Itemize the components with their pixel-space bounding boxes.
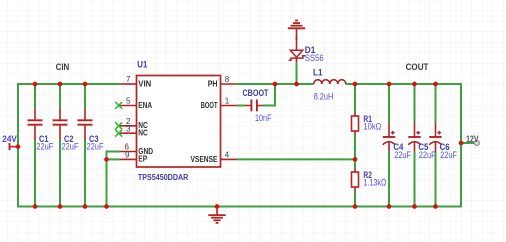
junction C1 top	[33, 82, 38, 87]
value 8.2uH	[314, 92, 334, 102]
diode D1 SS56	[289, 40, 306, 63]
junction CBOOT riser	[273, 82, 278, 87]
pin 5 ENA stub	[119, 105, 137, 107]
port label 24V	[2, 134, 16, 144]
svg-text:24V: 24V	[2, 134, 16, 144]
pin number 6	[125, 143, 130, 152]
wire C3 branch	[84, 84, 86, 207]
wire R1 top	[354, 84, 356, 113]
pin 9 EP stub	[120, 158, 137, 160]
wire GND pin to bottom rail	[107, 152, 121, 207]
junction C4 top	[387, 82, 392, 87]
resistor R1	[352, 113, 359, 135]
value C1 22uF	[36, 141, 53, 151]
wire C4 branch	[388, 84, 390, 207]
wire CBOOT to PH node	[263, 84, 276, 106]
svg-text:22uF: 22uF	[394, 150, 411, 160]
junction C5 bottom	[412, 204, 417, 209]
wire VSENSE to feedback node	[237, 158, 355, 160]
ground symbol bottom center	[208, 207, 225, 223]
value C3 22uF	[87, 141, 104, 151]
pin number 1	[225, 97, 230, 106]
svg-text:VIN: VIN	[138, 78, 151, 88]
svg-text:1.13kΩ: 1.13kΩ	[363, 178, 386, 188]
svg-text:22uF: 22uF	[36, 141, 53, 151]
capacitor C2	[53, 108, 68, 140]
12V output terminal circle	[474, 141, 479, 146]
designator R1	[363, 114, 372, 124]
designator D1	[305, 45, 316, 55]
node label CIN	[56, 62, 70, 72]
svg-text:4: 4	[225, 151, 230, 160]
value SS56	[305, 53, 324, 63]
pin 6 GND stub	[120, 151, 137, 153]
junction C3 bottom	[83, 204, 88, 209]
value C2 22uF	[62, 141, 79, 151]
ground symbol above D1 (flipped earth)	[288, 21, 305, 41]
capacitor C4 (polarized)	[383, 123, 396, 153]
svg-text:TPS5450DDAR: TPS5450DDAR	[138, 172, 189, 182]
pin name BOOT	[201, 100, 218, 110]
wire C5 branch	[414, 84, 416, 207]
junction 12V output	[459, 141, 464, 146]
junction C4 bottom	[387, 204, 392, 209]
svg-text:NC: NC	[138, 128, 148, 138]
designator CBOOT	[243, 88, 269, 98]
pin 2 NC stub	[119, 125, 137, 127]
pin name PH	[208, 78, 218, 88]
svg-text:8.2uH: 8.2uH	[314, 92, 334, 102]
wire BOOT pin to CBOOT	[237, 105, 246, 107]
svg-text:5: 5	[126, 97, 131, 106]
node label COUT	[406, 62, 429, 72]
capacitor CBOOT	[246, 100, 263, 112]
designator C3	[89, 134, 99, 144]
pin number 8	[225, 75, 230, 84]
wire R1 to R2 feedback node	[354, 135, 356, 169]
capacitor C3	[78, 108, 93, 140]
designator C6	[440, 142, 450, 152]
pin 3 NC stub	[119, 132, 137, 134]
junction C3 top	[83, 82, 88, 87]
wire C6 branch	[435, 84, 437, 207]
IC U1 TPS5450DDAR body	[137, 76, 221, 168]
pin number 5	[126, 97, 131, 106]
wire PH node	[237, 83, 314, 85]
value C6 22uF	[440, 150, 457, 160]
svg-text:9: 9	[125, 151, 130, 160]
no-connect X on pin 3	[115, 130, 122, 137]
wire bottom ground rail	[17, 206, 462, 208]
junction C1 bottom	[33, 204, 38, 209]
wire 12V output stub	[461, 142, 475, 144]
wire R2 to bottom rail	[354, 191, 356, 207]
pin number 4	[225, 151, 230, 160]
svg-text:22uF: 22uF	[62, 141, 79, 151]
junction R2 bottom	[353, 204, 358, 209]
svg-text:COUT: COUT	[406, 62, 429, 72]
junction C2 top	[58, 82, 63, 87]
24V input port	[10, 143, 18, 150]
value 10nF	[255, 113, 272, 123]
wire D1 cathode to PH node	[296, 63, 298, 85]
svg-text:L1: L1	[313, 67, 323, 77]
svg-text:ENA: ENA	[138, 100, 152, 110]
pin 8 PH stub	[221, 83, 238, 85]
value R1 10kΩ	[363, 122, 381, 132]
svg-text:22uF: 22uF	[419, 150, 436, 160]
svg-text:CIN: CIN	[56, 62, 70, 72]
capacitor C5 (polarized)	[408, 123, 421, 153]
svg-text:10kΩ: 10kΩ	[363, 122, 381, 132]
net label 12V	[466, 134, 478, 144]
junction GND branch bottom	[104, 204, 109, 209]
svg-text:3: 3	[126, 124, 131, 133]
wire C1 branch	[34, 84, 36, 207]
svg-text:1: 1	[225, 97, 230, 106]
junction EP node	[104, 157, 109, 162]
designator L1	[313, 67, 323, 77]
svg-text:12V: 12V	[466, 134, 478, 144]
svg-text:EP: EP	[138, 154, 147, 164]
capacitor C1	[28, 108, 43, 140]
svg-text:U1: U1	[137, 60, 147, 70]
junction R1 top	[353, 82, 358, 87]
pin name ENA	[138, 100, 152, 110]
pin number 3	[126, 124, 131, 133]
wire C2 branch	[59, 84, 61, 207]
designator C5	[418, 142, 428, 152]
designator C4	[393, 142, 403, 152]
pin number 7	[126, 75, 131, 84]
designator U1	[137, 60, 147, 70]
svg-text:CBOOT: CBOOT	[243, 88, 269, 98]
svg-text:PH: PH	[208, 78, 218, 88]
junction C2 bottom	[58, 204, 63, 209]
wire top input rail	[17, 83, 120, 85]
capacitor C6 (polarized)	[429, 123, 442, 153]
junction C5 top	[412, 82, 417, 87]
junction 24V input	[16, 144, 21, 149]
svg-text:7: 7	[126, 75, 131, 84]
svg-text:VSENSE: VSENSE	[191, 154, 218, 164]
no-connect X on pin 2	[115, 122, 122, 129]
wire right output rail	[460, 83, 462, 206]
resistor R2	[352, 169, 359, 191]
pin name NC (pin 2)	[138, 120, 148, 130]
pin 1 BOOT stub	[221, 105, 238, 107]
value TPS5450DDAR	[138, 172, 189, 182]
value C5 22uF	[419, 150, 436, 160]
pin name EP	[138, 154, 147, 164]
junction feedback node	[353, 157, 358, 162]
pin name NC (pin 3)	[138, 128, 148, 138]
wire EP pin	[107, 158, 121, 160]
svg-text:SS56: SS56	[305, 53, 324, 63]
value C4 22uF	[394, 150, 411, 160]
wire VOUT node	[346, 83, 461, 85]
pin number 9	[125, 151, 130, 160]
pin 4 VSENSE stub	[221, 158, 238, 160]
pin 7 VIN stub	[121, 83, 137, 85]
pin name VSENSE	[191, 154, 218, 164]
designator R2	[363, 170, 372, 180]
svg-text:BOOT: BOOT	[201, 100, 218, 110]
junction ground symbol	[215, 204, 220, 209]
junction C6 bottom	[433, 204, 438, 209]
wire D1 anode to ground	[296, 36, 298, 40]
junction D1 cathode	[294, 82, 299, 87]
svg-text:10nF: 10nF	[255, 113, 272, 123]
pin name GND	[138, 146, 153, 156]
value R2 1.13kΩ	[363, 178, 386, 188]
inductor L1	[314, 80, 346, 84]
no-connect X on pin 5	[115, 102, 122, 109]
designator C2	[64, 134, 74, 144]
junction C6 top	[433, 82, 438, 87]
svg-text:22uF: 22uF	[440, 150, 457, 160]
svg-text:22uF: 22uF	[87, 141, 104, 151]
svg-text:8: 8	[225, 75, 230, 84]
pin number 2	[126, 117, 131, 126]
pin name VIN	[138, 78, 151, 88]
wire left rail	[17, 83, 19, 206]
designator C1	[39, 134, 49, 144]
